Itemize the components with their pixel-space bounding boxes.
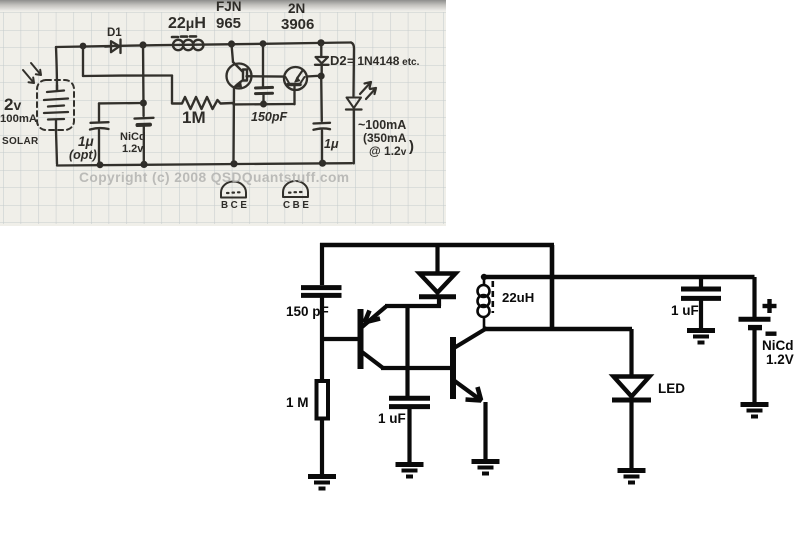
wire stub rail to 1M feed (82, 46, 84, 76)
label SOLAR (2, 136, 39, 147)
LED light arrows (360, 82, 376, 99)
diode D2 stub (320, 43, 322, 57)
ground below Q2 (472, 462, 500, 474)
label 100mA (0, 113, 37, 125)
wire horizontal feed (83, 74, 172, 77)
svg-text:1.2V: 1.2V (766, 352, 794, 367)
node dot mid (140, 100, 147, 107)
label 1u (opt) (69, 134, 97, 162)
wire vertical x552 (550, 245, 555, 329)
svg-text:@ 1.2v: @ 1.2v (369, 144, 407, 158)
svg-text:1M: 1M (182, 108, 206, 127)
svg-text:2N: 2N (288, 1, 305, 16)
wire rail y329 (484, 327, 632, 332)
svg-text:SOLAR: SOLAR (2, 136, 39, 147)
label C B E (283, 200, 312, 211)
transistor Q2 collector diagonal (454, 328, 487, 348)
svg-text:3906: 3906 (281, 16, 314, 33)
wire right loop vertical (351, 43, 354, 97)
transistor Q2 bar (450, 337, 456, 399)
battery B1 feed (752, 277, 756, 317)
resistor 1M zigzag (172, 97, 233, 109)
label 150pF (251, 110, 287, 124)
inductor L1 coil on top rail (172, 36, 203, 50)
label 2N 3906 (281, 1, 314, 33)
node junction dots on top rail (80, 39, 325, 49)
wire left drop to 150pF (320, 243, 324, 285)
svg-text:FJN: FJN (216, 0, 242, 14)
battery B1 plus sign (763, 299, 777, 313)
svg-text:CBE: CBE (283, 200, 312, 211)
diode D2 (315, 57, 329, 76)
solar cell BT1 dashed outline (37, 80, 74, 130)
svg-text:22uH: 22uH (502, 290, 534, 305)
svg-text:965: 965 (216, 15, 241, 32)
wire battery to ground (752, 330, 756, 402)
ground below C2 (396, 465, 424, 477)
wire LED drop (629, 329, 633, 375)
label B C E (221, 200, 250, 211)
battery B1 minus sign (766, 332, 777, 336)
svg-text:1μ: 1μ (324, 137, 339, 151)
LED D5 (612, 377, 651, 401)
wire top rail (56, 43, 351, 48)
wire 150pF to resistor / base node (320, 297, 324, 381)
wire drop to 1uF left (405, 306, 409, 396)
label 1M (182, 108, 206, 127)
capacitor 150pF plates (256, 87, 273, 104)
photo paper background (0, 0, 446, 226)
diode D4 (419, 274, 456, 307)
transistor Q1 bar (358, 309, 364, 369)
TO-92 package outline 1 (221, 182, 246, 198)
capacitor C2 1 uF (389, 398, 430, 406)
wire Q1 base to Q2 (247, 75, 285, 78)
ground below R1 (308, 477, 336, 489)
label 2v (4, 95, 21, 114)
solar cell battery plates (44, 85, 68, 131)
wire down to 1M (171, 76, 173, 104)
label 1u (324, 137, 339, 151)
capacitor 1u (opt) (90, 122, 109, 164)
LED D3 (346, 98, 362, 164)
label LED (658, 381, 685, 396)
wire top rail (320, 243, 554, 248)
svg-text:= 1N4148 etc.: = 1N4148 etc. (347, 54, 420, 68)
inductor L2 22uH coil (478, 277, 493, 329)
battery B1 plates (739, 319, 771, 327)
svg-text:1 uF: 1 uF (378, 411, 406, 426)
wire C2 to ground (407, 408, 411, 462)
svg-text:~100mA: ~100mA (358, 118, 406, 132)
label ~100mA (350mA @1.2v) (358, 118, 414, 158)
svg-text:D1: D1 (107, 27, 122, 39)
capacitor C3 1 uF right stub (699, 277, 703, 287)
svg-text:(opt): (opt) (69, 148, 97, 162)
label 22uH (502, 290, 534, 305)
label 22uH (168, 15, 206, 32)
transistor Q1 internals (232, 44, 248, 164)
diode D4 top feed (435, 245, 439, 273)
svg-text:Copyright (c) 2008 QSDQuantstu: Copyright (c) 2008 QSDQuantstuff.com (79, 170, 349, 185)
capacitor C1 150 pF (301, 288, 342, 296)
svg-text:150pF: 150pF (251, 110, 287, 124)
resistor R1 1M body (317, 381, 329, 419)
node dot D2 bottom (318, 73, 325, 80)
wire bottom rail (57, 163, 352, 165)
label 150 pF (286, 304, 329, 319)
wire LED to ground (629, 402, 633, 468)
transistor Q2 circle (284, 67, 307, 90)
diode D1 (105, 40, 121, 54)
transistor Q1 circle (227, 64, 252, 89)
label 1 M (286, 395, 309, 410)
TO-92 package outline 2 (283, 181, 308, 197)
wire D2 node down (320, 76, 323, 121)
wire 1u opt branch horizontal (99, 102, 143, 105)
light ray arrows (23, 63, 41, 83)
label FJN 965 (216, 0, 242, 32)
svg-text:1 M: 1 M (286, 395, 309, 410)
wire resistor to ground (320, 418, 324, 474)
wire emitter rail between transistors (234, 103, 295, 106)
capacitor C3 1 uF plates (681, 289, 721, 298)
svg-text:1μ: 1μ (78, 134, 94, 149)
node dot L2 top (481, 274, 487, 280)
wire C3 to ground (699, 300, 703, 328)
transistor Q2 emitter diagonal + arrow (454, 381, 482, 402)
label 1 uF right (671, 303, 699, 318)
svg-text:1 uF: 1 uF (671, 303, 699, 318)
HAND-DRAWN SCHEMATIC (photo) (0, 0, 420, 211)
wire down to cap (98, 103, 100, 121)
watermark Copyright (c) 2008 QSDQuantstuff.com (79, 170, 349, 185)
ground below battery (741, 405, 769, 417)
svg-text:2v: 2v (4, 95, 21, 114)
label D2 = 1N4148 etc (330, 53, 420, 68)
wire T2 to D2 node (307, 75, 322, 78)
svg-text:NiCd: NiCd (762, 338, 794, 353)
svg-text:): ) (409, 138, 414, 155)
ground below LED (618, 471, 646, 483)
ground below C3 (687, 331, 715, 343)
wire base of Q1 (320, 337, 358, 341)
node dot on 150pF net (260, 101, 267, 108)
svg-text:BCE: BCE (221, 200, 250, 211)
wire solar cell to bottom rail (56, 131, 57, 164)
node junction dots bottom rail (97, 160, 327, 169)
label nicd 1.2v (120, 131, 146, 155)
capacitor 150pF stub (262, 44, 264, 87)
wire Q2 emitter to ground (483, 402, 487, 459)
label D1 (107, 27, 122, 39)
battery NiCd plates (135, 118, 154, 164)
svg-text:(350mA: (350mA (363, 131, 407, 145)
svg-text:100mA: 100mA (0, 113, 37, 125)
wire left vertical to solar cell (56, 47, 57, 90)
wire rail y277 (484, 275, 755, 279)
battery NiCd vertical wire (142, 45, 145, 116)
svg-text:22μH: 22μH (168, 15, 206, 32)
label 1 uF left (378, 411, 406, 426)
transistor Q1 collector diagonal (362, 352, 383, 368)
svg-text:NiCd: NiCd (120, 131, 146, 143)
wire emitter rail (385, 304, 441, 308)
capacitor 1u right (314, 123, 331, 163)
transistor Q1 emitter diagonal + arrow (362, 307, 386, 328)
wire Q2 base rail (381, 366, 451, 370)
transistor Q2 internals (286, 71, 305, 105)
label NiCd 1.2V (762, 338, 794, 367)
svg-text:D2: D2 (330, 53, 347, 68)
svg-text:1.2v: 1.2v (122, 143, 144, 155)
svg-text:LED: LED (658, 381, 685, 396)
